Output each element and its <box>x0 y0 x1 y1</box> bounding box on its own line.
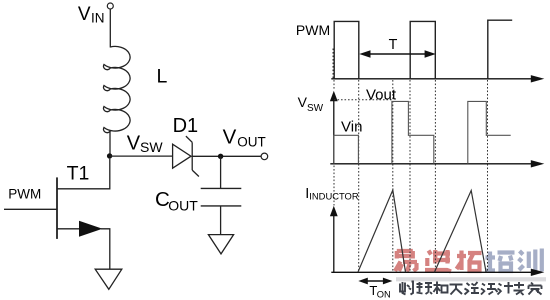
ground (transistor source) <box>95 269 122 289</box>
svg-text:V: V <box>127 132 141 154</box>
wire dotted timing line at first rising edge <box>333 49 334 206</box>
axis VSW time axis <box>330 160 544 167</box>
svg-text:V: V <box>78 4 91 25</box>
svg-text:INDUCTOR: INDUCTOR <box>309 190 359 201</box>
label IINDUCTOR (plot 3) <box>305 186 359 202</box>
label VOUT <box>223 125 266 149</box>
axis VSW vertical <box>330 91 338 164</box>
svg-text:V: V <box>223 125 237 148</box>
wire PWM pulse waveform <box>334 20 512 79</box>
label TON arrow <box>358 278 392 285</box>
watermark blue characters "培训" <box>485 249 542 272</box>
node VOUT junction dot <box>218 154 223 159</box>
svg-text:Vin: Vin <box>341 118 362 135</box>
axis PWM time axis <box>331 75 544 82</box>
svg-text:PWM: PWM <box>296 22 330 38</box>
svg-text:T1: T1 <box>67 162 90 184</box>
label VIN <box>78 4 105 26</box>
wire VSW node to diode <box>110 155 173 157</box>
wire diode to VOUT <box>192 155 261 157</box>
svg-text:L: L <box>157 66 168 88</box>
node VOUT terminal <box>261 153 268 160</box>
axis IL vertical <box>330 206 338 272</box>
watermark red characters "易迪拓" <box>395 250 482 272</box>
label T period arrow <box>359 50 436 57</box>
transistor T1 <box>4 159 110 269</box>
wire inductor current waveform <box>358 190 486 272</box>
svg-text:SW: SW <box>307 103 324 114</box>
wire dotted timing lines <box>359 80 488 271</box>
capacitor COUT <box>201 188 242 206</box>
svg-text:SW: SW <box>140 139 163 155</box>
wire VSW waveform <box>334 101 511 163</box>
watermark slogan characters "射频和天线设计专家" <box>400 282 542 296</box>
wire VOUT node to capacitor <box>220 156 222 188</box>
diode D1 <box>173 136 199 176</box>
label TON <box>369 283 390 299</box>
svg-text:T: T <box>389 37 398 53</box>
ground (output) <box>208 235 233 254</box>
svg-text:IN: IN <box>91 10 105 25</box>
axis IL time axis <box>331 269 544 276</box>
wire capacitor to ground <box>220 206 222 235</box>
svg-text:ON: ON <box>377 289 391 299</box>
label COUT <box>155 188 198 213</box>
inductor L1 coil <box>103 46 130 132</box>
svg-text:OUT: OUT <box>237 135 266 150</box>
svg-text:D1: D1 <box>173 115 199 137</box>
label VSW <box>127 132 164 155</box>
svg-text:OUT: OUT <box>168 197 198 213</box>
node VSW junction dot <box>107 153 112 158</box>
svg-text:PWM: PWM <box>8 186 41 201</box>
label VSW (plot 2) <box>298 94 324 114</box>
wire Vout dotted level line <box>334 99 392 101</box>
wire VIN to inductor <box>109 9 111 47</box>
node VIN terminal <box>107 3 113 9</box>
watermark gray band <box>396 277 546 281</box>
wire inductor to VSW node <box>109 131 111 156</box>
svg-text:Vout: Vout <box>366 86 397 103</box>
